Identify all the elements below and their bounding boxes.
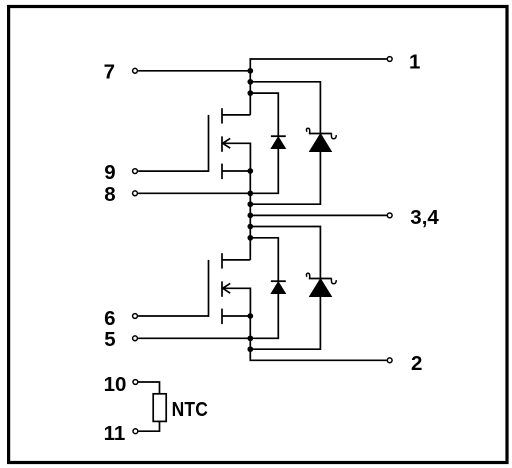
node: D2 anode junction <box>247 201 253 207</box>
wire: D1 anode to source bus <box>250 149 278 193</box>
pin label 1 <box>409 50 420 73</box>
wire: pin 5 to source bus of Q2 <box>138 337 250 339</box>
node: pin 8 / D1 anode junction <box>247 190 253 196</box>
pin label 11 <box>104 422 126 445</box>
terminal pin 11 <box>133 429 138 434</box>
node: pin 7 junction on drain bus <box>247 68 253 74</box>
wire: lower diode D3 cathode branch <box>250 238 278 281</box>
wire: top rail, drain bus of Q1 to pin 1 <box>250 59 387 115</box>
wire: pin 10 to NTC resistor <box>139 382 160 394</box>
node: D4 cathode junction <box>247 224 253 230</box>
svg-text:11: 11 <box>104 422 126 445</box>
svg-text:NTC: NTC <box>172 398 208 421</box>
wire: bottom rail, Q2 source bus to pin 2 <box>250 316 387 360</box>
wire: mid bus (Q1 source to Q2 drain) <box>249 171 251 260</box>
terminal pin 2 <box>387 358 392 363</box>
terminal pin 10 <box>133 380 138 385</box>
terminal pin 5 <box>133 336 138 341</box>
svg-text:2: 2 <box>411 352 422 375</box>
pin label 6 <box>104 307 115 330</box>
wire: lower schottky D4 cathode branch <box>250 227 320 279</box>
terminal pin 3,4 <box>387 213 392 218</box>
pin label 2 <box>411 352 422 375</box>
wire: pin 11 to NTC resistor <box>139 421 160 431</box>
diode D2 (upper schottky freewheel diode) <box>306 128 336 151</box>
wire: pin 7 to drain bus <box>138 70 250 72</box>
svg-text:8: 8 <box>104 183 115 206</box>
transistor Q1 (upper MOSFET) <box>209 108 251 179</box>
pin label 8 <box>104 183 115 206</box>
transistor Q2 (lower MOSFET) <box>209 253 251 324</box>
node: D2 cathode junction <box>247 79 253 85</box>
node: D4 anode junction <box>247 346 253 352</box>
value label NTC <box>172 398 208 421</box>
wire: pin 9 to gate of Q1 <box>138 170 208 172</box>
node: D1 cathode junction <box>247 90 253 96</box>
node: mid rail junction (pin 3,4) <box>247 213 253 219</box>
svg-text:5: 5 <box>104 328 115 351</box>
svg-text:1: 1 <box>409 50 420 73</box>
svg-text:6: 6 <box>104 307 115 330</box>
node: Q1 source junction <box>247 168 253 174</box>
terminal pin 7 <box>133 68 138 73</box>
diode D4 (lower schottky freewheel diode) <box>306 273 336 296</box>
wire: upper diode D1 cathode branch <box>250 93 278 136</box>
diode D1 (upper body diode) <box>271 136 286 148</box>
svg-text:7: 7 <box>104 60 115 83</box>
pin label 10 <box>104 373 127 396</box>
wire: D2 anode to source bus <box>250 152 320 204</box>
node: Q2 source junction <box>247 313 253 319</box>
terminal pin 8 <box>133 191 138 196</box>
terminal pin 6 <box>133 314 138 319</box>
terminal pin 9 <box>133 169 138 174</box>
wire: mid rail to pin 3,4 <box>250 214 387 216</box>
wire: D4 anode to source bus <box>250 297 320 349</box>
svg-text:10: 10 <box>104 373 127 396</box>
wire: pin 8 to source bus of Q1 <box>138 192 250 194</box>
pin label 7 <box>104 60 115 83</box>
node: D3 cathode junction <box>247 235 253 241</box>
resistor NTC <box>153 394 166 422</box>
pin label 5 <box>104 328 115 351</box>
diode D3 (lower body diode) <box>271 281 286 293</box>
svg-text:3,4: 3,4 <box>410 206 439 229</box>
wire: upper schottky D2 cathode branch <box>250 82 320 133</box>
node: pin 5 / D3 anode junction <box>247 335 253 341</box>
terminal pin 1 <box>387 57 392 62</box>
wire: pin 6 to gate of Q2 <box>138 315 208 317</box>
pin label 3,4 <box>410 206 439 229</box>
svg-text:9: 9 <box>104 161 115 184</box>
pin label 9 <box>104 161 115 184</box>
wire: D3 anode to source bus <box>250 294 278 338</box>
